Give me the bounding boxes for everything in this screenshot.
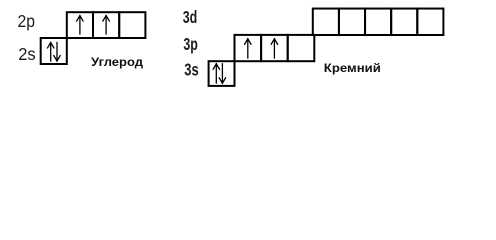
up arrow 3s [213,64,219,83]
down arrow 2s [54,43,60,62]
svg-text:2s: 2s [18,44,36,64]
3d orbital boxes [313,9,444,35]
svg-text:3s: 3s [184,60,199,80]
3p orbital boxes [235,35,315,61]
svg-text:3p: 3p [183,34,198,54]
up arrow 2p box2 [103,16,109,34]
up arrow 3p box2 [271,39,277,58]
up arrow 2p box1 [77,16,83,34]
svg-text:3d: 3d [183,7,198,27]
svg-text:2p: 2p [18,11,36,31]
down arrow 3s [219,64,225,83]
electron arrows [48,16,278,84]
2s orbital box [41,38,67,64]
up arrow 2s [48,43,54,62]
3s orbital box [209,61,235,86]
up arrow 3p box1 [245,39,251,58]
svg-text:Кремний: Кремний [324,61,381,75]
labels [18,7,381,80]
2p orbital boxes [67,12,146,38]
svg-text:Углерод: Углерод [91,55,143,69]
